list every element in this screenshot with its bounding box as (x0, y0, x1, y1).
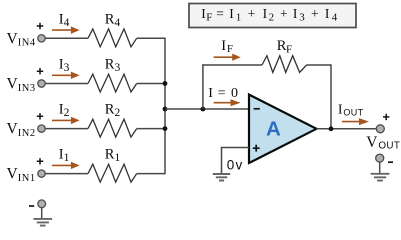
resistor R4 (88, 29, 137, 47)
wire VIN3 to R3 (45, 83, 88, 85)
junction node feedback tap (201, 107, 206, 112)
wire VIN2 to R2 (45, 128, 88, 130)
svg-text:0v: 0v (227, 157, 244, 172)
wire R4 to bus (137, 37, 165, 39)
wire R3 to bus (137, 83, 165, 85)
output terminal VOUT (376, 125, 384, 133)
current arrow I4 (52, 29, 71, 31)
resistor R2 (88, 119, 137, 137)
op-amp U1 triangle (249, 95, 317, 163)
resistor R3 (88, 74, 137, 92)
wire R1 to bus (137, 173, 165, 175)
common minus terminal bottom left (38, 200, 46, 208)
wire output terminal to ground (379, 162, 381, 173)
minus sign output (388, 161, 393, 163)
current arrow I1 (52, 164, 71, 166)
plus sign output (383, 114, 389, 120)
wire non-inverting input (222, 148, 250, 174)
wire bottom terminal to ground (41, 208, 43, 219)
plus sign VIN1 (37, 158, 43, 164)
op-amp minus input marker (254, 108, 260, 110)
feedback wire up from tap (202, 64, 204, 109)
resistor R1 (88, 164, 137, 182)
wire bus to op-amp inverting input (165, 108, 249, 110)
junction node row2 (163, 126, 168, 131)
output minus terminal (376, 154, 384, 162)
plus sign VIN3 (37, 68, 43, 74)
junction node row3 (163, 81, 168, 86)
junction node summing (163, 107, 168, 112)
wire R2 to bus (137, 128, 165, 130)
source VIN2 terminal (38, 125, 45, 132)
current arrow IOUT (342, 121, 361, 123)
plus sign VIN2 (37, 113, 43, 119)
source VIN1 terminal (38, 170, 45, 177)
current arrow I3 (52, 74, 71, 76)
minus sign bottom left (29, 205, 34, 207)
ground bottom left (33, 219, 52, 226)
svg-text:I=0: I=0 (208, 86, 238, 101)
ground output (371, 174, 390, 181)
wire VIN1 to R1 (45, 173, 88, 175)
plus sign VIN4 (37, 23, 43, 29)
ground op-amp (213, 174, 230, 181)
feedback wire top left segment (202, 64, 262, 66)
equation box (189, 4, 356, 28)
source VIN4 terminal (38, 35, 45, 42)
wire VIN4 to R4 (45, 37, 88, 39)
feedback wire down to output (330, 64, 332, 129)
junction node output (329, 126, 334, 131)
op-amp plus input marker (253, 145, 260, 152)
current arrow I2 (52, 119, 71, 121)
source VIN3 terminal (38, 80, 45, 87)
summing bus vertical wire (164, 38, 166, 175)
output wire (317, 128, 377, 130)
feedback wire top right segment (307, 64, 332, 66)
current arrow IF (214, 56, 233, 58)
resistor RF (262, 56, 307, 73)
svg-text:A: A (266, 118, 281, 141)
current arrow I=0 (214, 102, 231, 104)
